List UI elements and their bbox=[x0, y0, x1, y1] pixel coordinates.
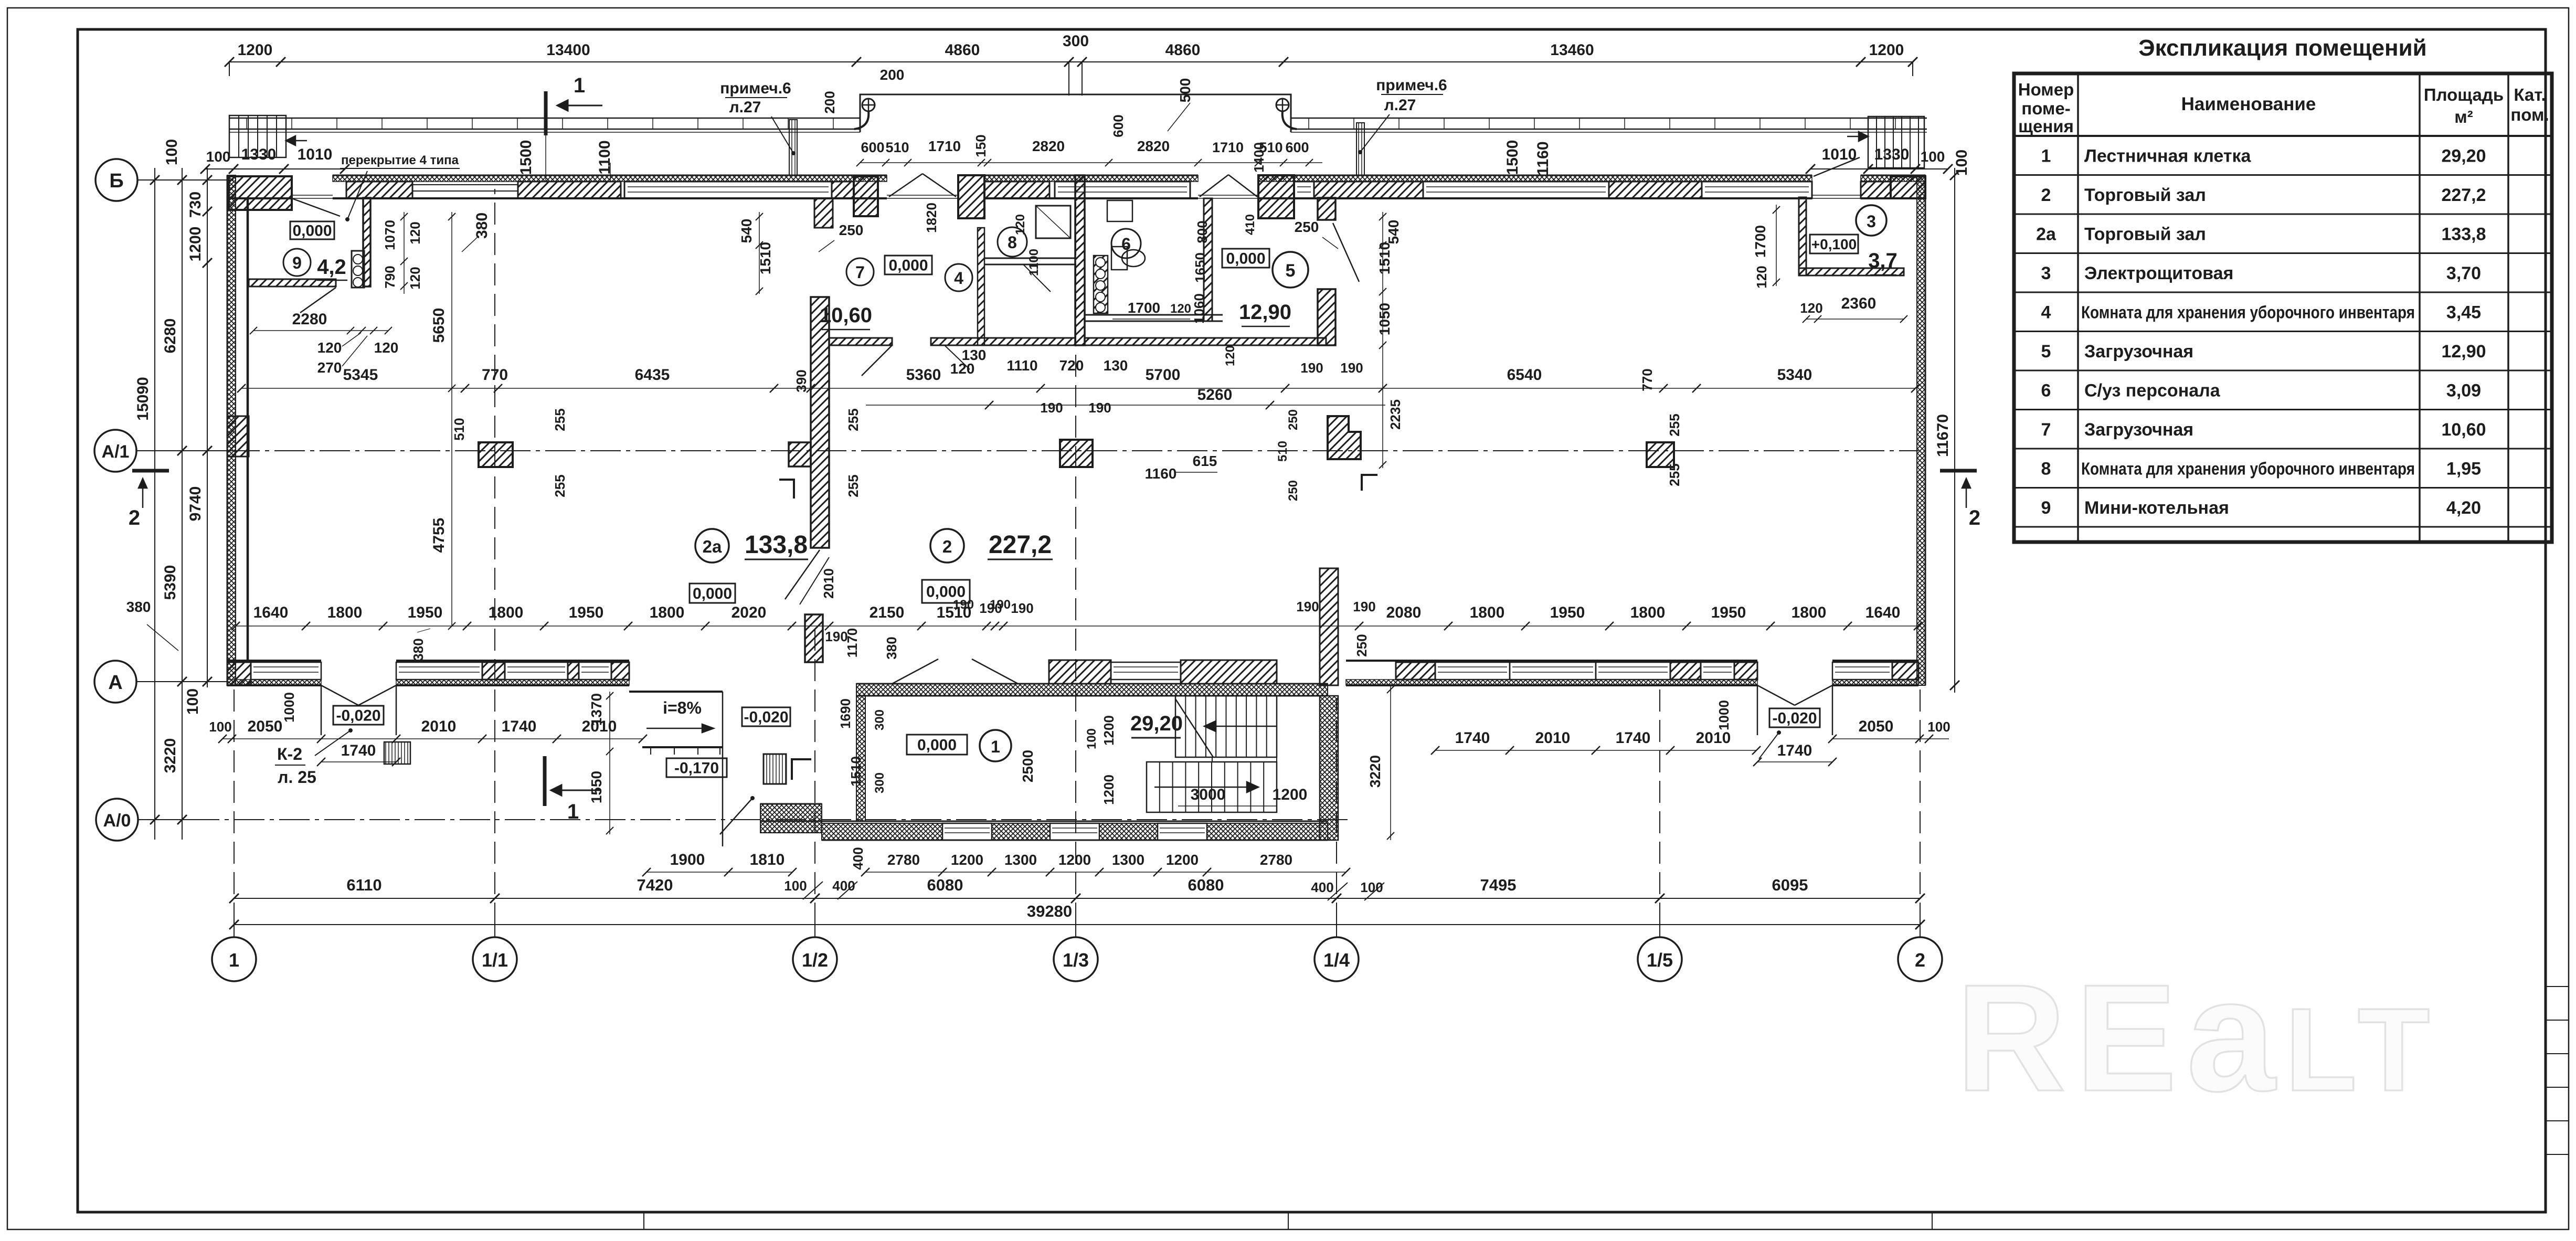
svg-text:3,45: 3,45 bbox=[2446, 302, 2481, 322]
svg-text:190: 190 bbox=[953, 598, 974, 612]
fold marks bottom edge bbox=[643, 1212, 644, 1229]
section mark 1 top bbox=[544, 91, 548, 135]
table outer border bbox=[2014, 73, 2552, 542]
svg-text:1: 1 bbox=[991, 737, 1000, 756]
svg-text:615: 615 bbox=[1193, 453, 1217, 469]
top wall pier right of door3 bbox=[1861, 182, 1891, 198]
svg-text:510: 510 bbox=[885, 140, 909, 155]
bottom wall inner face bbox=[227, 660, 321, 662]
svg-text:2а: 2а bbox=[2036, 224, 2056, 244]
right porch door swing V bbox=[1757, 685, 1795, 705]
svg-text:2780: 2780 bbox=[887, 852, 920, 868]
axis line А/1 dash-dot bbox=[136, 450, 229, 451]
svg-text:Торговый зал: Торговый зал bbox=[2084, 224, 2206, 244]
svg-text:5260: 5260 bbox=[1197, 386, 1233, 404]
svg-text:770: 770 bbox=[482, 366, 508, 384]
vent stack bbox=[1094, 256, 1108, 313]
svg-text:перекрытие 4 типа: перекрытие 4 типа bbox=[341, 153, 459, 167]
svg-text:4860: 4860 bbox=[1165, 41, 1201, 59]
svg-text:2: 2 bbox=[1915, 949, 1925, 971]
table row lines bbox=[2014, 174, 2552, 176]
svg-text:5: 5 bbox=[2041, 342, 2051, 362]
room 3 level box +0,100 bbox=[1810, 235, 1858, 253]
svg-text:800: 800 bbox=[1194, 220, 1210, 243]
svg-text:Лестничная клетка: Лестничная клетка bbox=[2084, 146, 2251, 166]
svg-text:1010: 1010 bbox=[298, 146, 333, 163]
svg-text:5650: 5650 bbox=[430, 308, 448, 343]
top wall window boxes bbox=[624, 182, 832, 198]
room 9 dims 1070 790 120 120 bbox=[404, 212, 405, 294]
canopy band left bbox=[229, 118, 860, 119]
svg-text:100: 100 bbox=[206, 149, 231, 165]
svg-text:255: 255 bbox=[845, 474, 861, 497]
column at 1/3 bbox=[1060, 440, 1093, 467]
svg-text:720: 720 bbox=[1059, 357, 1084, 374]
svg-text:3000: 3000 bbox=[1191, 786, 1226, 803]
bottom wall insulation band bbox=[227, 680, 321, 685]
svg-text:540: 540 bbox=[1385, 220, 1402, 245]
svg-text:4,20: 4,20 bbox=[2446, 498, 2481, 518]
svg-text:1300: 1300 bbox=[1112, 852, 1144, 868]
svg-text:1/3: 1/3 bbox=[1063, 949, 1089, 971]
svg-text:3: 3 bbox=[2041, 263, 2051, 283]
svg-text:190: 190 bbox=[990, 598, 1011, 612]
stair lower flight bbox=[1147, 762, 1277, 812]
svg-text:2а: 2а bbox=[703, 537, 722, 556]
room 4 door swing bbox=[945, 345, 970, 369]
svg-text:133,8: 133,8 bbox=[2441, 224, 2486, 244]
svg-text:1000: 1000 bbox=[1716, 700, 1732, 730]
svg-text:4,2: 4,2 bbox=[317, 256, 346, 279]
room 7 label circle bbox=[846, 258, 874, 285]
svg-text:примеч.6: примеч.6 bbox=[1376, 77, 1447, 94]
svg-text:200: 200 bbox=[880, 67, 905, 83]
interior bottom dim chain bbox=[236, 625, 1918, 627]
axis verticals dashed bbox=[234, 687, 235, 925]
dim 2360 120 room3 bbox=[1806, 319, 1904, 320]
room 2a circle bbox=[695, 529, 729, 563]
room 9 circle bbox=[283, 249, 311, 276]
svg-text:270: 270 bbox=[317, 359, 342, 376]
room 9 dims 2280 120 270 120 bbox=[253, 330, 388, 331]
svg-text:120: 120 bbox=[1800, 300, 1822, 316]
svg-text:1510: 1510 bbox=[848, 756, 864, 787]
svg-text:1800: 1800 bbox=[1791, 604, 1827, 621]
left wall inner face line bbox=[247, 198, 249, 661]
room 3 circle bbox=[1856, 205, 1886, 236]
svg-text:1170: 1170 bbox=[844, 628, 860, 657]
svg-text:5360: 5360 bbox=[906, 366, 941, 384]
svg-text:Комната для хранения уборочног: Комната для хранения уборочного инвентар… bbox=[2081, 459, 2415, 478]
svg-text:250: 250 bbox=[1286, 480, 1300, 501]
rooms 4 5 bottom wall bbox=[1085, 338, 1326, 345]
svg-text:190: 190 bbox=[1353, 599, 1375, 614]
svg-text:390: 390 bbox=[793, 369, 809, 392]
left bottom dims 100 2050 2010 1740 2010 bbox=[222, 738, 643, 739]
svg-text:поме-: поме- bbox=[2021, 99, 2070, 118]
axis leader Б bbox=[137, 179, 234, 181]
svg-text:м²: м² bbox=[2454, 107, 2473, 126]
svg-text:1200: 1200 bbox=[1166, 852, 1199, 868]
svg-text:Экспликация помещений: Экспликация помещений bbox=[2138, 35, 2426, 61]
svg-text:6540: 6540 bbox=[1507, 366, 1542, 384]
svg-text:1000: 1000 bbox=[281, 692, 297, 723]
svg-text:600: 600 bbox=[1285, 140, 1309, 155]
top wall porch pier left of door2 bbox=[1258, 175, 1294, 218]
svg-text:1370: 1370 bbox=[588, 693, 605, 726]
svg-text:1060: 1060 bbox=[1191, 293, 1207, 324]
room 6 sink bbox=[1107, 200, 1132, 221]
left porch level box -0,020 bbox=[333, 706, 384, 725]
svg-text:А: А bbox=[108, 672, 122, 694]
svg-text:1160: 1160 bbox=[1534, 141, 1552, 175]
annex mat K-2 bbox=[764, 754, 786, 784]
svg-text:15090: 15090 bbox=[134, 377, 152, 420]
svg-text:Номер: Номер bbox=[2018, 80, 2074, 99]
svg-text:2235: 2235 bbox=[1387, 399, 1403, 430]
svg-text:1950: 1950 bbox=[569, 604, 604, 621]
svg-text:400: 400 bbox=[832, 878, 855, 894]
svg-text:150: 150 bbox=[973, 134, 989, 157]
mid dim chain 5260 bbox=[866, 405, 1385, 406]
svg-text:л. 25: л. 25 bbox=[278, 768, 316, 787]
svg-text:-0,020: -0,020 bbox=[1772, 710, 1817, 727]
section mark 2 right bbox=[1940, 469, 1977, 473]
mid dim vertical 5650 4755 bbox=[451, 212, 452, 626]
central wall B bbox=[1075, 175, 1085, 345]
svg-text:1640: 1640 bbox=[1865, 604, 1901, 621]
partition 7/4 bbox=[978, 228, 984, 345]
svg-text:2150: 2150 bbox=[870, 604, 905, 621]
svg-text:1700: 1700 bbox=[1752, 225, 1768, 258]
svg-text:1800: 1800 bbox=[327, 604, 363, 621]
svg-text:4755: 4755 bbox=[430, 518, 448, 553]
svg-text:7420: 7420 bbox=[637, 876, 673, 894]
svg-text:227,2: 227,2 bbox=[989, 531, 1052, 559]
fold marks right edge bbox=[2546, 986, 2569, 987]
top wall window simple bbox=[412, 184, 518, 185]
roof drain funnel right bbox=[1276, 99, 1289, 111]
right dim chain 11670 bbox=[1954, 168, 1955, 693]
room 2 circle bbox=[930, 529, 964, 563]
svg-text:120: 120 bbox=[1223, 345, 1237, 366]
svg-text:2: 2 bbox=[942, 537, 952, 556]
top wall outer face line bbox=[333, 175, 887, 176]
annex west corner block bbox=[760, 804, 822, 833]
svg-text:3220: 3220 bbox=[1367, 755, 1383, 788]
svg-text:1200: 1200 bbox=[1058, 852, 1091, 868]
top left corner dims 100 1330 1010 bbox=[205, 168, 345, 169]
svg-text:1950: 1950 bbox=[408, 604, 443, 621]
svg-text:5700: 5700 bbox=[1146, 366, 1181, 384]
svg-text:12,90: 12,90 bbox=[2441, 342, 2486, 362]
svg-text:1740: 1740 bbox=[502, 718, 537, 735]
left wall pilaster at А/1 bbox=[227, 416, 249, 457]
svg-text:пом.: пом. bbox=[2510, 105, 2549, 124]
svg-text:6080: 6080 bbox=[1188, 876, 1224, 894]
svg-text:3,7: 3,7 bbox=[1868, 249, 1897, 272]
svg-text:л.27: л.27 bbox=[1384, 97, 1416, 114]
svg-text:А/0: А/0 bbox=[103, 811, 131, 831]
svg-text:0,000: 0,000 bbox=[1226, 250, 1265, 268]
column T at 1/4 bbox=[1328, 416, 1361, 459]
top wall stub below window end bbox=[814, 198, 833, 228]
svg-text:-0,170: -0,170 bbox=[674, 760, 719, 777]
svg-text:Электрощитовая: Электрощитовая bbox=[2084, 263, 2233, 283]
svg-text:2780: 2780 bbox=[1260, 852, 1292, 868]
svg-text:1740: 1740 bbox=[341, 742, 376, 759]
svg-text:190: 190 bbox=[1300, 360, 1323, 376]
mid dim chain 5345 770 6435 390 5360 5700 6540 770 5340 bbox=[241, 388, 1915, 389]
top wall door room9 swing bbox=[292, 198, 340, 216]
svg-text:1800: 1800 bbox=[650, 604, 685, 621]
column at 1/5 bbox=[1647, 442, 1674, 467]
annex east wall bbox=[1320, 568, 1338, 685]
svg-text:1690: 1690 bbox=[838, 698, 853, 729]
svg-text:100: 100 bbox=[1953, 150, 1970, 176]
partition 6/5 lower bbox=[1085, 314, 1223, 316]
top wall piers bbox=[346, 182, 412, 198]
axis circle Б bbox=[96, 159, 137, 201]
svg-text:Наименование: Наименование bbox=[2181, 94, 2316, 114]
svg-text:1510: 1510 bbox=[1376, 242, 1393, 274]
svg-text:6080: 6080 bbox=[927, 876, 963, 894]
svg-text:190: 190 bbox=[1296, 599, 1319, 614]
svg-text:0,000: 0,000 bbox=[292, 222, 332, 240]
svg-text:примеч.6: примеч.6 bbox=[720, 80, 791, 97]
svg-text:-0,020: -0,020 bbox=[336, 707, 380, 725]
right porch dim 1740 bbox=[1757, 761, 1832, 762]
column bracket bbox=[1362, 475, 1377, 491]
svg-text:190: 190 bbox=[1088, 400, 1111, 416]
svg-text:1330: 1330 bbox=[241, 146, 277, 163]
svg-text:1070: 1070 bbox=[382, 220, 398, 250]
svg-text:Загрузочная: Загрузочная bbox=[2084, 342, 2193, 362]
room 9 level box 0,000 bbox=[290, 221, 334, 239]
canopy band right bbox=[1291, 118, 1927, 119]
svg-text:100: 100 bbox=[784, 878, 807, 894]
room 8 cabinet bbox=[1036, 206, 1070, 238]
room 1 level box bbox=[907, 735, 967, 755]
svg-text:190: 190 bbox=[1011, 600, 1033, 616]
svg-text:8: 8 bbox=[1008, 233, 1017, 252]
svg-text:1330: 1330 bbox=[1874, 146, 1910, 163]
svg-text:5390: 5390 bbox=[162, 565, 179, 600]
svg-text:1/5: 1/5 bbox=[1647, 949, 1673, 971]
svg-text:120: 120 bbox=[374, 340, 399, 356]
svg-text:1500: 1500 bbox=[1504, 140, 1521, 175]
svg-text:6095: 6095 bbox=[1772, 876, 1808, 894]
svg-text:1,95: 1,95 bbox=[2446, 459, 2481, 479]
svg-text:1160: 1160 bbox=[1145, 465, 1177, 482]
svg-text:7: 7 bbox=[855, 263, 865, 282]
svg-text:4860: 4860 bbox=[945, 41, 980, 59]
svg-text:1050: 1050 bbox=[1376, 303, 1393, 335]
room 9 door swing bbox=[300, 288, 336, 313]
svg-text:4: 4 bbox=[954, 269, 963, 288]
svg-text:1740: 1740 bbox=[1616, 729, 1651, 747]
fire ladder right bbox=[1868, 116, 1924, 168]
top wall corner block right bbox=[1891, 176, 1925, 198]
svg-text:Площадь: Площадь bbox=[2424, 85, 2504, 104]
svg-text:2280: 2280 bbox=[292, 311, 327, 328]
svg-text:щения: щения bbox=[2018, 116, 2074, 136]
svg-text:2010: 2010 bbox=[421, 718, 457, 735]
ramp top rail bbox=[629, 691, 723, 693]
svg-text:0,000: 0,000 bbox=[693, 585, 732, 602]
svg-text:1800: 1800 bbox=[489, 604, 524, 621]
svg-text:100: 100 bbox=[209, 719, 231, 735]
svg-text:5340: 5340 bbox=[1777, 366, 1812, 384]
svg-text:5345: 5345 bbox=[343, 366, 378, 384]
annex north wall band bbox=[856, 684, 1328, 696]
svg-text:1200: 1200 bbox=[951, 852, 983, 868]
stair upper arrow bbox=[1204, 721, 1277, 731]
room 6 toilet bbox=[1111, 247, 1127, 270]
svg-text:10,60: 10,60 bbox=[2441, 420, 2486, 440]
left porch opening bbox=[321, 685, 322, 735]
svg-text:250: 250 bbox=[1354, 634, 1370, 656]
axis line А/0 dash-dot bbox=[138, 819, 189, 820]
right bottom dims 1740 2010 1740 2010 bbox=[1435, 750, 1756, 751]
svg-text:Комната для хранения уборочног: Комната для хранения уборочного инвентар… bbox=[2081, 302, 2415, 322]
room 6 circle bbox=[1111, 229, 1141, 258]
top right corner dims 1010 1330 100 bbox=[1810, 168, 1948, 169]
top wall door room3 swing bbox=[1814, 157, 1860, 176]
svg-text:120: 120 bbox=[1013, 214, 1027, 235]
annex north door swings bbox=[892, 659, 938, 684]
svg-text:1300: 1300 bbox=[1004, 852, 1037, 868]
level box room 2a bottom bbox=[690, 584, 735, 603]
annex entrance level box -0,020 bbox=[742, 707, 790, 726]
annex inner west wall bbox=[856, 696, 865, 821]
svg-text:510: 510 bbox=[451, 418, 467, 440]
svg-text:1110: 1110 bbox=[1006, 357, 1037, 374]
svg-text:250: 250 bbox=[839, 222, 864, 238]
svg-text:2360: 2360 bbox=[1841, 295, 1877, 312]
svg-text:9: 9 bbox=[292, 253, 302, 272]
dim 1370 1550 vertical bbox=[609, 692, 610, 834]
svg-text:2: 2 bbox=[129, 506, 140, 529]
svg-text:2020: 2020 bbox=[732, 604, 767, 621]
room 9 right wall bbox=[363, 198, 370, 287]
stair handrail bbox=[1212, 757, 1277, 762]
svg-text:1500: 1500 bbox=[517, 140, 535, 175]
svg-text:120: 120 bbox=[407, 221, 423, 244]
top wall corner block left bbox=[229, 176, 292, 210]
axis leader А bbox=[136, 681, 227, 682]
svg-text:2010: 2010 bbox=[821, 568, 836, 599]
svg-text:2820: 2820 bbox=[1032, 138, 1065, 154]
svg-text:С/уз персонала: С/уз персонала bbox=[2084, 380, 2221, 400]
svg-text:130: 130 bbox=[1104, 357, 1128, 374]
room 9 boiler bbox=[352, 251, 364, 288]
svg-text:8: 8 bbox=[2041, 459, 2051, 479]
drain pipe right bbox=[1356, 123, 1364, 175]
axis circle А/0 bbox=[96, 799, 138, 841]
svg-text:1200: 1200 bbox=[238, 41, 273, 59]
room 4 circle bbox=[945, 264, 972, 291]
partition 8/4 bbox=[984, 258, 1075, 259]
svg-text:4: 4 bbox=[2041, 302, 2051, 322]
svg-text:Мини-котельная: Мини-котельная bbox=[2084, 498, 2229, 518]
svg-text:1900: 1900 bbox=[670, 851, 705, 868]
detail chain 1900 1810 etc bbox=[646, 872, 792, 873]
span chain 6110 7420 6080 6080 7495 6095 bbox=[234, 898, 1920, 899]
annex south windows bbox=[942, 823, 992, 840]
top center door left swing bbox=[889, 174, 923, 197]
svg-text:29,20: 29,20 bbox=[1130, 712, 1183, 735]
table header row separator bbox=[2014, 135, 2552, 137]
svg-text:2010: 2010 bbox=[1696, 729, 1731, 747]
top center door right swing bbox=[1200, 175, 1228, 197]
room 5 circle bbox=[1273, 252, 1308, 288]
svg-text:190: 190 bbox=[1340, 360, 1363, 376]
svg-text:1820: 1820 bbox=[924, 203, 939, 233]
svg-text:250: 250 bbox=[1286, 409, 1300, 430]
svg-text:730: 730 bbox=[187, 192, 204, 218]
left dim chain 6280 9740 5390 3220 bbox=[182, 168, 183, 840]
bottom wall piers bbox=[227, 662, 251, 685]
dim 1700 120 room6 bbox=[1112, 319, 1190, 320]
svg-text:2: 2 bbox=[1969, 506, 1980, 529]
svg-text:1200: 1200 bbox=[1101, 715, 1117, 746]
svg-text:10,60: 10,60 bbox=[820, 304, 872, 327]
room 4 bottom wall bbox=[931, 338, 1075, 345]
top dimension chain 1200 13400 4860 300 4860 13460 1200 bbox=[229, 61, 1913, 62]
svg-text:1800: 1800 bbox=[1470, 604, 1505, 621]
svg-text:6: 6 bbox=[2041, 380, 2051, 400]
svg-text:6110: 6110 bbox=[346, 876, 381, 894]
svg-text:2: 2 bbox=[2041, 185, 2051, 205]
dim 1700 120 room3 vertical bbox=[1776, 205, 1777, 286]
svg-text:Б: Б bbox=[109, 170, 123, 192]
svg-text:2050: 2050 bbox=[248, 718, 283, 735]
bottom wall window above annex bbox=[1111, 662, 1181, 680]
svg-text:255: 255 bbox=[552, 408, 568, 431]
svg-text:1200: 1200 bbox=[1101, 775, 1117, 805]
svg-text:3,09: 3,09 bbox=[2446, 380, 2481, 400]
room 5 level box bbox=[1222, 249, 1269, 268]
svg-text:1800: 1800 bbox=[1630, 604, 1666, 621]
svg-text:600: 600 bbox=[1110, 114, 1126, 137]
axis circle А bbox=[94, 661, 136, 703]
svg-text:1200: 1200 bbox=[1273, 786, 1308, 803]
svg-text:1400: 1400 bbox=[1251, 142, 1267, 173]
overall chain 39280 bbox=[234, 924, 1920, 925]
svg-text:300: 300 bbox=[1063, 33, 1089, 50]
svg-text:510: 510 bbox=[1276, 441, 1290, 462]
fire ladder left bbox=[229, 115, 286, 157]
svg-text:i=8%: i=8% bbox=[663, 698, 702, 717]
left dim chain 15090 bbox=[154, 168, 155, 840]
svg-text:400: 400 bbox=[850, 847, 866, 869]
bottom wall outer face line bbox=[227, 684, 321, 686]
svg-text:л.27: л.27 bbox=[729, 99, 761, 116]
svg-text:Загрузочная: Загрузочная bbox=[2084, 420, 2193, 440]
interior wall lower stub bbox=[805, 614, 823, 662]
svg-text:380: 380 bbox=[884, 637, 899, 659]
top wall pier 1876-2000 bbox=[984, 182, 1050, 198]
bracket below pilaster bbox=[779, 480, 794, 498]
svg-text:1810: 1810 bbox=[750, 851, 785, 868]
svg-text:790: 790 bbox=[382, 266, 398, 288]
bottom wall pier left of right porch bbox=[1734, 662, 1757, 680]
svg-text:+0,100: +0,100 bbox=[1811, 236, 1857, 252]
svg-text:410: 410 bbox=[1243, 214, 1257, 235]
left dim chain 9740 730 1200 bbox=[207, 168, 208, 687]
right porch opening bbox=[1757, 685, 1758, 735]
